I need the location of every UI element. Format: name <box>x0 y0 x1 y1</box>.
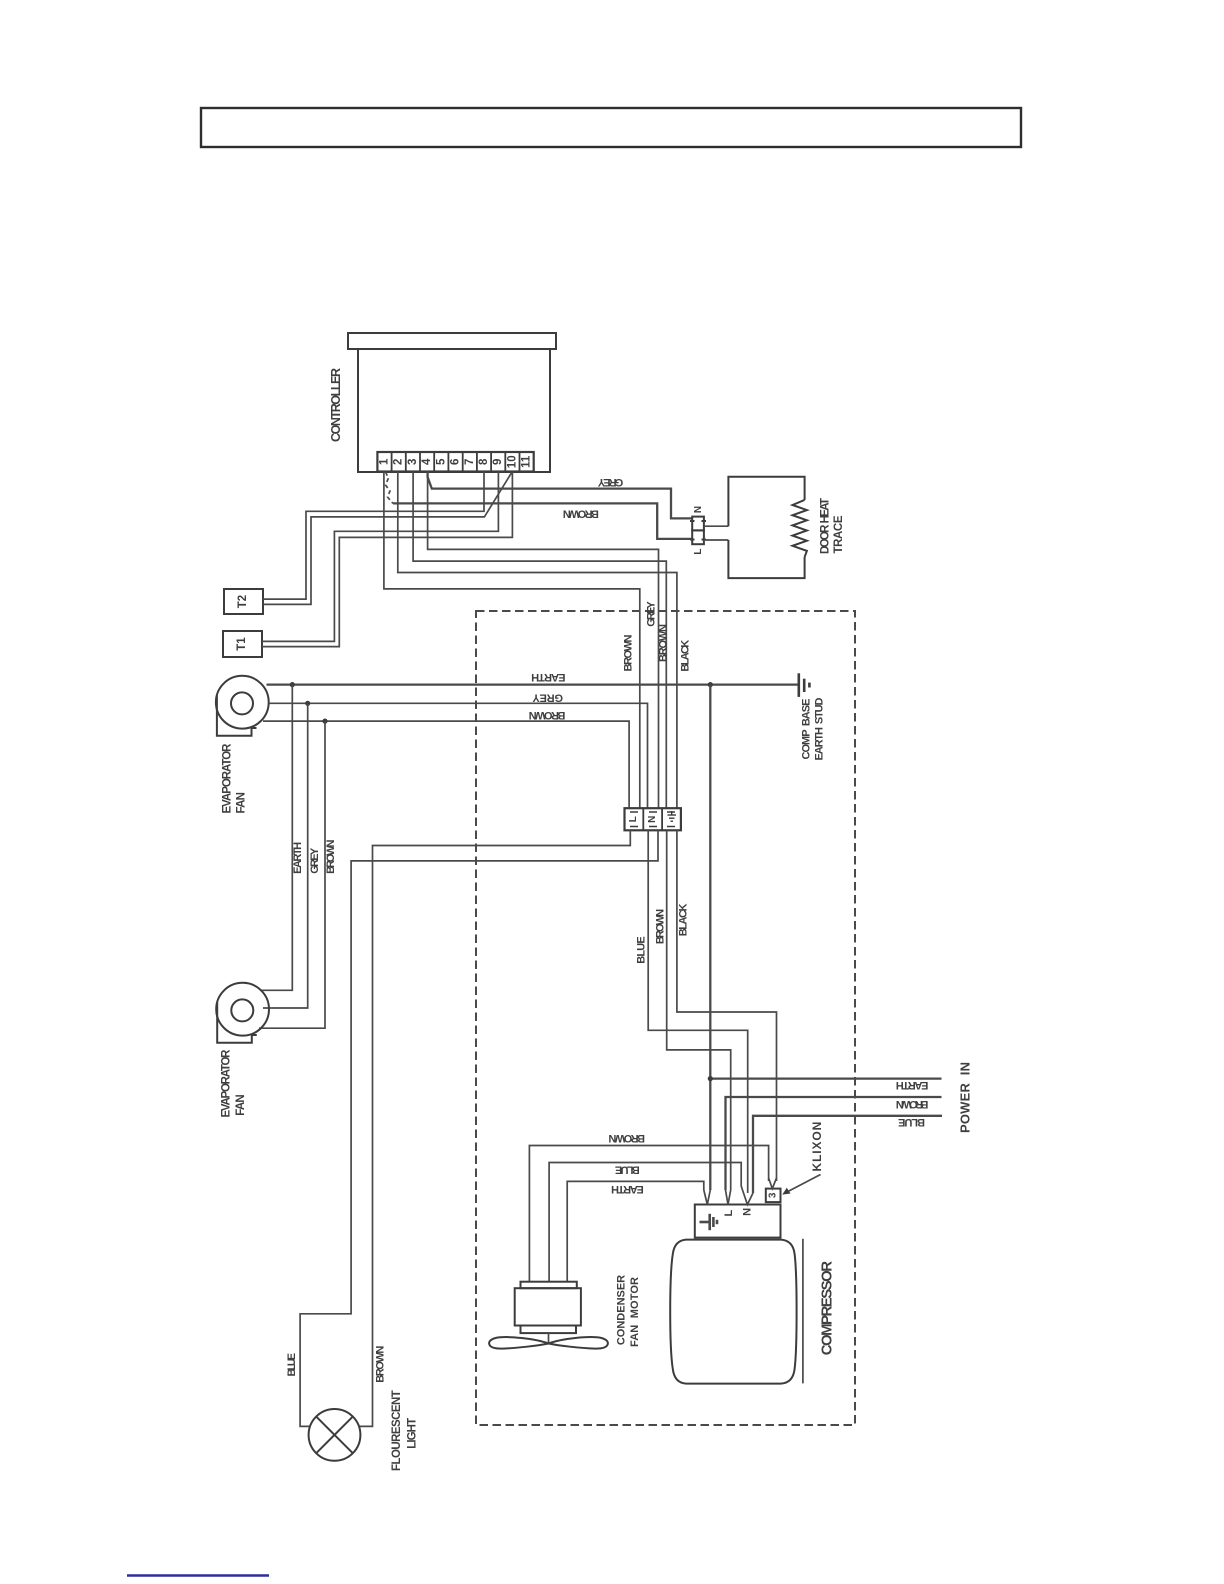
connector block L/N of door heat trace <box>690 517 706 545</box>
wire GREY pin4 to terminal N <box>428 477 659 808</box>
svg-text:BLACK: BLACK <box>677 904 689 937</box>
spade klixon pin <box>769 1178 777 1189</box>
wire BROWN pin1 to terminal L <box>384 472 640 809</box>
terminal block L N earth outline <box>625 808 681 830</box>
svg-text:GREY: GREY <box>532 692 563 704</box>
wire POWER IN EARTH <box>710 1077 941 1079</box>
svg-text:EARTH STUD: EARTH STUD <box>814 697 826 760</box>
svg-text:L: L <box>723 1209 735 1216</box>
svg-text:2: 2 <box>393 459 405 465</box>
svg-text:COMPRESSOR: COMPRESSOR <box>819 1261 836 1356</box>
condenser fan motor top flange <box>521 1282 577 1289</box>
svg-text:CONTROLLER: CONTROLLER <box>329 368 343 442</box>
wire light BROWN to terminal L bottom <box>359 830 630 1426</box>
wire POWER IN BLUE <box>753 1116 942 1193</box>
title box (empty) <box>201 108 1021 147</box>
lamp cross <box>316 1417 353 1454</box>
evaporator fan 1 hub <box>231 692 253 714</box>
wire light BLUE to terminal N bottom <box>300 830 658 1426</box>
svg-text:6: 6 <box>450 459 462 465</box>
wire POWER IN BROWN <box>726 1097 942 1190</box>
svg-text:9: 9 <box>492 459 504 465</box>
svg-text:BROWN: BROWN <box>622 634 634 671</box>
junction dot earth stud branch <box>708 682 713 687</box>
wire BLACK pin2 to terminal earth <box>398 472 677 809</box>
svg-text:BLUE: BLUE <box>286 1353 298 1377</box>
svg-text:3: 3 <box>768 1192 779 1198</box>
svg-text:COMP BASE: COMP BASE <box>801 699 813 760</box>
condenser fan motor bottom flange <box>521 1326 577 1334</box>
svg-text:GREY: GREY <box>645 601 657 627</box>
evaporator fan 2 housing <box>217 1002 257 1043</box>
svg-text:BROWN: BROWN <box>325 839 337 873</box>
spade N pin <box>743 1190 754 1205</box>
svg-text:EARTH: EARTH <box>531 671 565 683</box>
wire EARTH drop to fan2 <box>260 685 292 991</box>
svg-text:N: N <box>693 506 704 513</box>
condenser fan propeller <box>489 1337 608 1349</box>
wire condenser BLUE to compressor N <box>549 1163 742 1282</box>
svg-text:GREY: GREY <box>309 847 321 874</box>
wire BROWN terminal earth to compressor L <box>667 830 731 1190</box>
svg-text:7: 7 <box>464 459 476 465</box>
svg-text:BROWN: BROWN <box>563 508 599 520</box>
evaporator fan 2 scroll <box>216 983 269 1036</box>
evaporator fan 1 housing <box>217 695 257 736</box>
svg-text:T2: T2 <box>237 595 249 608</box>
wire T1 a to pin 9 <box>262 472 498 642</box>
svg-text:11: 11 <box>521 455 533 468</box>
svg-text:EVAPORATOR: EVAPORATOR <box>221 743 233 814</box>
svg-text:4: 4 <box>421 458 433 465</box>
svg-text:FAN: FAN <box>236 792 248 814</box>
klixon pointer arrow <box>786 1175 821 1193</box>
junction dots fan1 <box>290 682 295 687</box>
svg-text:LIGHT: LIGHT <box>407 1418 419 1449</box>
klixon box 3 <box>766 1189 781 1203</box>
svg-text:BROWN: BROWN <box>657 624 669 662</box>
spade L pin <box>726 1190 731 1205</box>
svg-text:L: L <box>628 816 639 822</box>
svg-text:BLACK: BLACK <box>680 640 692 672</box>
svg-text:N: N <box>741 1208 753 1216</box>
footer link underline <box>127 1574 269 1577</box>
svg-text:KLIXON: KLIXON <box>810 1122 824 1172</box>
wire T2 b to pin 10 (diagonal) <box>263 472 512 604</box>
compressor body <box>670 1240 796 1384</box>
svg-text:BROWN: BROWN <box>608 1132 645 1144</box>
svg-text:1: 1 <box>379 458 391 465</box>
wire BLUE terminal N to compressor N <box>648 830 748 1193</box>
wire connector to heat trace box top stub <box>704 525 729 527</box>
wire EARTH vertical to compressor earth pin <box>709 685 711 1190</box>
terminal strip dividers <box>392 452 520 472</box>
heater resistor zigzag <box>793 500 807 557</box>
svg-text:DOOR HEAT: DOOR HEAT <box>819 498 831 554</box>
svg-text:T1: T1 <box>236 637 248 651</box>
wire BROWN pin1 squiggle to heat trace connector <box>386 472 394 503</box>
condenser fan motor body <box>515 1288 581 1325</box>
svg-text:FLOURESCENT: FLOURESCENT <box>391 1390 403 1471</box>
wire BROWN fan1 to terminal L <box>263 721 629 808</box>
svg-text:5: 5 <box>435 458 447 465</box>
wire BLACK terminal earth to klixon <box>677 830 777 1181</box>
controller U1 cap <box>348 333 556 349</box>
svg-text:3: 3 <box>407 459 419 465</box>
svg-text:FAN MOTOR: FAN MOTOR <box>629 1277 641 1347</box>
svg-text:POWER IN: POWER IN <box>958 1062 973 1133</box>
condenser fan motor shaft <box>548 1333 550 1342</box>
dashed condensing unit enclosure <box>476 611 855 1425</box>
compressor earth pin glyph <box>700 1214 718 1230</box>
evaporator fan 2 hub <box>231 999 253 1021</box>
svg-text:BROWN: BROWN <box>375 1346 387 1383</box>
ground comp base earth stud symbol <box>799 673 810 697</box>
pin numbers 1-11 <box>379 455 533 468</box>
controller U1 body <box>358 349 550 472</box>
wire condenser BROWN to klixon <box>529 1146 768 1282</box>
wire BROWN drop to fan2 <box>259 721 325 1028</box>
svg-text:EARTH: EARTH <box>896 1079 929 1091</box>
wire BROWN pin3 to terminal earth <box>413 472 666 809</box>
svg-text:FAN: FAN <box>235 1094 247 1116</box>
svg-text:BLUE: BLUE <box>898 1116 925 1128</box>
svg-text:L: L <box>693 548 704 554</box>
svg-text:8: 8 <box>478 458 490 465</box>
spade earth pin <box>704 1190 711 1205</box>
svg-text:10: 10 <box>506 455 518 468</box>
wire T1 b to pin 10 <box>262 472 512 647</box>
compressor terminal box <box>695 1205 781 1238</box>
terminal strip outline <box>377 452 533 472</box>
sensor T2 box <box>224 589 263 614</box>
terminal block screws <box>630 812 675 827</box>
compressor side line <box>802 1239 804 1384</box>
svg-text:EVAPORATOR: EVAPORATOR <box>221 1049 233 1118</box>
wire condenser EARTH to compressor earth <box>567 1181 704 1281</box>
heater DOOR HEAT TRACE box outline <box>728 477 804 527</box>
svg-text:CONDENSER: CONDENSER <box>615 1275 627 1345</box>
evaporator fan 1 scroll <box>216 676 269 729</box>
svg-text:BROWN: BROWN <box>529 709 566 721</box>
svg-text:EARTH: EARTH <box>611 1183 644 1195</box>
terminal block earth glyph <box>668 811 677 821</box>
svg-text:BLUE: BLUE <box>636 936 648 964</box>
wire GREY drop to fan2 <box>263 703 308 1008</box>
lamp flourescent light circle <box>309 1409 361 1461</box>
sensor T1 box <box>223 631 262 657</box>
wire connector to heat trace box bottom stub <box>704 539 729 541</box>
svg-text:TRACE: TRACE <box>833 515 845 553</box>
svg-text:BROWN: BROWN <box>655 909 667 944</box>
wire GREY fan1 to terminal N <box>269 703 648 808</box>
wire EARTH fan1 to comp base earth stud <box>267 683 799 685</box>
svg-text:GREY: GREY <box>597 476 623 488</box>
svg-text:BLUE: BLUE <box>615 1163 640 1175</box>
svg-text:BROWN: BROWN <box>896 1098 929 1110</box>
svg-text:N: N <box>647 816 658 823</box>
wire T2 a to pin 8 <box>263 472 484 600</box>
wire GREY pin4 to heat trace connector <box>428 472 693 519</box>
svg-text:EARTH: EARTH <box>292 842 304 874</box>
